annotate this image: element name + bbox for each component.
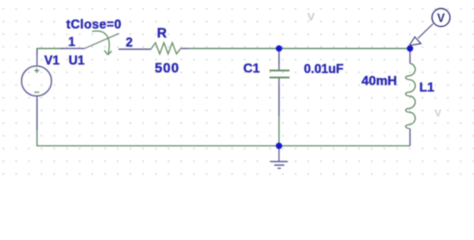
- switch U1: [61, 31, 152, 55]
- svg-text:V: V: [307, 11, 315, 23]
- svg-text:1: 1: [68, 35, 75, 49]
- svg-text:C1: C1: [243, 60, 260, 75]
- svg-text:2: 2: [126, 35, 133, 49]
- svg-text:V: V: [437, 13, 445, 25]
- svg-text:V: V: [435, 109, 442, 120]
- wire top-left from V1 to switch pin 1: [37, 49, 63, 56]
- svg-text:tClose=0: tClose=0: [66, 17, 121, 31]
- wire capacitor upper stub: [278, 52, 280, 65]
- svg-text:U1: U1: [69, 54, 85, 68]
- capacitor C1: [270, 53, 290, 117]
- voltage source V1: [22, 49, 52, 130]
- inductor L1: [406, 49, 416, 146]
- node junction at capacitor top: [276, 45, 282, 51]
- wire from resistor to right node: [188, 48, 407, 50]
- node junction at right top: [407, 45, 413, 51]
- svg-text:L1: L1: [419, 80, 434, 95]
- svg-text:R: R: [157, 25, 167, 40]
- wire capacitor lower stub: [278, 84, 280, 145]
- svg-text:500: 500: [155, 60, 180, 75]
- voltage probe marker V: [409, 9, 450, 46]
- svg-text:40mH: 40mH: [362, 73, 397, 88]
- node junction at ground: [276, 143, 282, 149]
- wire bottom rail: [37, 99, 410, 146]
- svg-text:0.01uF: 0.01uF: [304, 62, 344, 76]
- resistor R: [151, 43, 188, 54]
- svg-text:V1: V1: [44, 54, 59, 68]
- ground 0: [270, 146, 288, 169]
